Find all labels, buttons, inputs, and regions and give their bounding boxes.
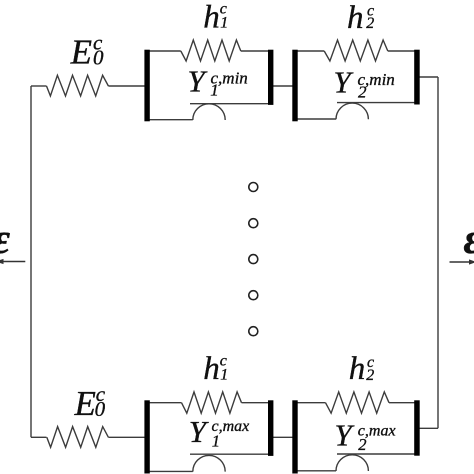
wire block2-right bottom xyxy=(418,427,438,429)
svg-text:2: 2 xyxy=(358,435,366,454)
wire E0-to-block1 top xyxy=(108,85,145,87)
label Y1^c,max bottom xyxy=(189,414,250,451)
wire bottom line block2 top row xyxy=(295,118,336,120)
svg-text:2: 2 xyxy=(366,367,374,384)
bar block2 left bottom xyxy=(292,400,297,473)
spring h2 bottom xyxy=(326,392,390,413)
wire left vertical xyxy=(30,86,32,437)
node dot 2 xyxy=(249,219,258,228)
node dot 1 xyxy=(249,183,258,192)
svg-text:2: 2 xyxy=(366,15,374,32)
wire block1-block2 bottom xyxy=(272,436,295,438)
svg-text:h: h xyxy=(203,351,220,387)
svg-text:h: h xyxy=(349,351,366,387)
bar block2 right top xyxy=(414,50,420,105)
wire bottom-left horizontal xyxy=(31,436,47,438)
svg-text:0: 0 xyxy=(93,46,104,70)
spring h1 top xyxy=(181,40,241,61)
wire block2-right top xyxy=(418,76,438,78)
svg-text:ε: ε xyxy=(464,216,474,263)
friction plate block1 top xyxy=(190,103,271,105)
friction plate block1 bottom xyxy=(190,453,271,455)
spring h1 bottom xyxy=(182,392,242,413)
svg-text:1: 1 xyxy=(220,366,228,383)
svg-text:Y: Y xyxy=(188,64,208,99)
label Y2^c,max bottom xyxy=(335,418,396,454)
wire bottom line block2 bottom row xyxy=(295,470,336,472)
svg-text:h: h xyxy=(203,0,220,36)
wire bottom line block1 bottom row xyxy=(147,470,193,472)
svg-text:Y: Y xyxy=(335,418,355,453)
bar block1 left bottom xyxy=(144,400,149,473)
spring h2 top xyxy=(324,40,388,61)
wire block1-block2 top xyxy=(272,85,295,87)
wire bottom line block1 top row xyxy=(147,119,193,121)
label E0^c top xyxy=(70,30,104,71)
bar block1 left top xyxy=(144,50,149,122)
bar block1 right top xyxy=(268,50,273,105)
wire top line block2 xyxy=(295,50,417,52)
svg-text:Y: Y xyxy=(189,414,209,449)
node dot 3 xyxy=(249,255,258,264)
wire E0-to-block1 bottom xyxy=(108,436,145,438)
friction plate block2 bottom xyxy=(337,453,417,455)
label h1^c top xyxy=(203,0,228,36)
svg-text:Y: Y xyxy=(334,65,354,100)
node dot 5 xyxy=(249,327,258,336)
resistor spring E0 top xyxy=(47,75,109,96)
label h2^c bottom xyxy=(349,351,375,387)
svg-text:1: 1 xyxy=(220,15,228,32)
svg-text:2: 2 xyxy=(358,83,367,102)
label h2^c top xyxy=(347,0,374,36)
svg-text:h: h xyxy=(347,0,364,36)
bar block2 left top xyxy=(292,50,297,122)
svg-text:E: E xyxy=(74,384,96,423)
friction dome block2 top xyxy=(336,103,368,119)
label h1^c bottom xyxy=(203,351,228,387)
label Y2^c,min top xyxy=(334,65,395,102)
svg-text:ε: ε xyxy=(0,216,11,263)
friction dome block2 bottom xyxy=(336,455,368,471)
wire top line block1 bottom row xyxy=(147,402,271,404)
svg-text:1: 1 xyxy=(212,432,220,451)
svg-text:1: 1 xyxy=(210,80,219,99)
resistor spring E0 bottom xyxy=(47,427,109,448)
svg-text:E: E xyxy=(70,33,92,72)
label E0^c bottom xyxy=(74,382,106,423)
svg-text:0: 0 xyxy=(95,397,106,421)
node dot 4 xyxy=(249,291,258,300)
wire top-left horizontal xyxy=(31,85,47,87)
bar block1 right bottom xyxy=(268,400,273,456)
wire top line block2 bottom row xyxy=(295,402,417,404)
arrow strain left xyxy=(0,259,25,264)
friction plate block2 top xyxy=(337,102,417,104)
wire right vertical xyxy=(437,77,439,428)
arrow strain right xyxy=(450,259,474,264)
friction dome block1 bottom xyxy=(193,455,225,471)
bar block2 right bottom xyxy=(414,400,420,455)
label Y1^c,min top xyxy=(188,64,248,100)
friction dome block1 top xyxy=(193,104,225,120)
wire top line block1 xyxy=(147,50,271,52)
